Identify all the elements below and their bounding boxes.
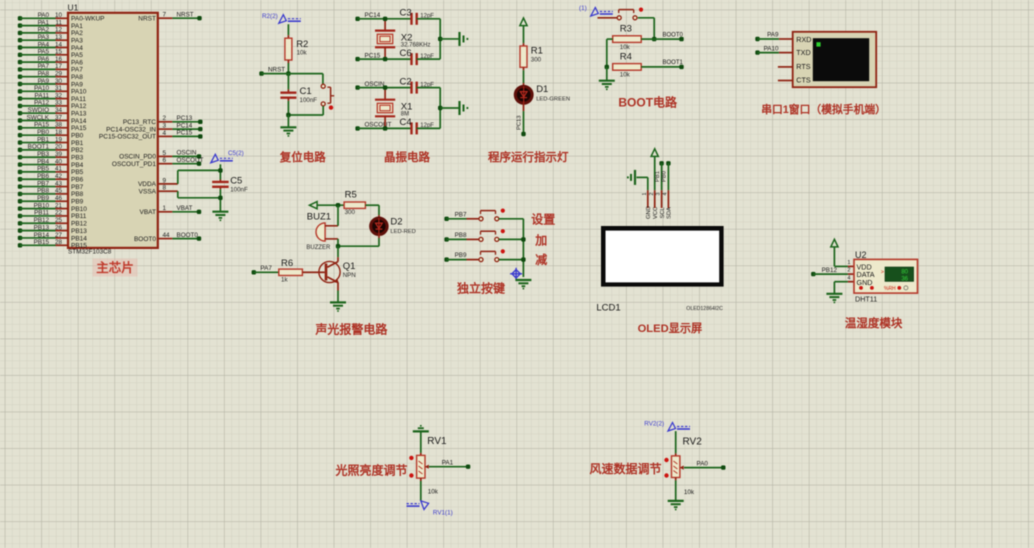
svg-text:PB13: PB13	[34, 224, 50, 231]
svg-text:PB5: PB5	[37, 166, 49, 173]
ground below C5	[212, 211, 228, 213]
resistor R4 10k	[613, 64, 642, 71]
svg-text:PA2: PA2	[71, 30, 83, 37]
svg-text:43: 43	[55, 180, 63, 187]
wire + pin PA1 (pin 11) left side U1	[18, 23, 22, 27]
wire OSCOUT row	[355, 126, 359, 130]
svg-text:D1: D1	[536, 84, 548, 95]
wire + pin PA12 (pin 33) left side U1	[18, 104, 22, 108]
svg-text:PC13: PC13	[177, 115, 193, 122]
pin TXD stub	[779, 52, 793, 54]
DHT11 indicator dots	[859, 286, 863, 290]
svg-text:PB10: PB10	[71, 206, 87, 213]
svg-text:OSCOUT: OSCOUT	[177, 157, 204, 164]
wire + pin PB12 (pin 25) left side U1	[18, 221, 22, 225]
svg-text:PB1: PB1	[655, 171, 661, 182]
svg-text:36: 36	[901, 276, 908, 282]
ground buttons	[515, 279, 531, 281]
svg-text:PA6: PA6	[38, 56, 50, 63]
svg-text:GND: GND	[646, 206, 652, 219]
pin SDA stub	[667, 190, 669, 208]
svg-text:PB9: PB9	[455, 252, 467, 259]
svg-text:PC15: PC15	[177, 130, 193, 137]
svg-text:RTS: RTS	[796, 62, 810, 71]
svg-text:PB14: PB14	[71, 235, 87, 242]
pin VDD stub	[848, 265, 854, 267]
svg-text:VSSA: VSSA	[139, 189, 157, 196]
svg-text:R2: R2	[296, 39, 308, 50]
svg-text:4: 4	[663, 193, 669, 196]
svg-text:减: 减	[535, 252, 547, 267]
capacitor C6 12pF	[410, 53, 412, 65]
svg-text:NRST: NRST	[138, 16, 156, 23]
wire + pin PB5 (pin 41) left side U1	[18, 170, 22, 174]
wire C5 vertical rail	[219, 164, 221, 179]
svg-text:39: 39	[55, 151, 63, 158]
svg-text:40: 40	[55, 158, 63, 165]
wire RV2 bottom	[675, 478, 677, 481]
svg-text:(1): (1)	[579, 5, 587, 12]
svg-text:27: 27	[55, 232, 63, 239]
svg-text:18: 18	[55, 129, 63, 136]
wire + pin PB11 (pin 22) left side U1	[18, 214, 22, 218]
wire R5 to D2	[365, 204, 379, 206]
svg-text:C5: C5	[230, 176, 242, 187]
svg-text:PA2: PA2	[38, 27, 50, 34]
resistor R2 10k	[285, 38, 292, 60]
svg-text:16: 16	[55, 56, 63, 63]
pin RTS stub	[778, 66, 793, 68]
wire PA10 to TXD	[755, 50, 759, 54]
svg-text:BUZ1: BUZ1	[307, 212, 331, 223]
svg-text:PB0: PB0	[662, 171, 668, 182]
svg-text:PB0: PB0	[37, 129, 49, 136]
diode D1 LED-GREEN	[515, 86, 532, 103]
node junction PC14 crystal	[383, 17, 387, 21]
svg-text:OSCIN_PD0: OSCIN_PD0	[119, 154, 156, 161]
svg-text:PB11: PB11	[71, 213, 87, 220]
svg-text:PB7: PB7	[37, 180, 49, 187]
power flag R2(2)	[279, 15, 287, 24]
ground sideways right	[458, 101, 460, 115]
svg-text:PB15: PB15	[34, 239, 50, 246]
svg-text:TXD: TXD	[796, 48, 810, 57]
wire button to BOOT0 rail	[638, 17, 654, 19]
svg-text:100nF: 100nF	[230, 187, 248, 194]
pin VCC stub	[654, 190, 656, 208]
svg-text:Q1: Q1	[343, 261, 356, 272]
wire + pin PA11 (pin 32) left side U1	[18, 96, 22, 100]
svg-text:33: 33	[55, 100, 63, 107]
wire + pin PB14 (pin 27) left side U1	[18, 236, 22, 240]
svg-text:PB7: PB7	[455, 211, 467, 218]
wire + pin PB1 (pin 19) left side U1	[18, 140, 22, 144]
svg-text:10k: 10k	[684, 489, 695, 496]
svg-text:PA15: PA15	[34, 122, 49, 129]
pin DATA stub	[848, 273, 854, 275]
svg-text:PC15-OSC32_OUT: PC15-OSC32_OUT	[99, 134, 156, 141]
svg-text:25: 25	[55, 217, 63, 224]
wire + pin PB3 (pin 39) left side U1	[18, 155, 22, 159]
svg-text:PA10: PA10	[34, 85, 49, 92]
svg-text:PB0: PB0	[71, 133, 84, 140]
node junction rail mid	[438, 106, 442, 110]
svg-text:BOOT0: BOOT0	[177, 232, 199, 239]
svg-text:VDDA: VDDA	[138, 181, 157, 188]
wire button PB7 to rail	[499, 218, 524, 220]
wire OSCIN row	[355, 85, 359, 89]
push button PB8	[479, 237, 483, 241]
wire + pin PB9 (pin 46) left side U1	[18, 199, 22, 203]
wire GND to ground	[834, 281, 848, 283]
svg-text:37: 37	[55, 114, 63, 121]
wire + pin PB8 (pin 45) left side U1	[18, 192, 22, 196]
node junction OSCOUT crystal	[383, 126, 387, 130]
ground alarm	[330, 301, 346, 303]
node junction rail PB8	[521, 237, 525, 241]
svg-text:PA13: PA13	[71, 111, 87, 118]
svg-text:PA9: PA9	[71, 81, 83, 88]
svg-text:45: 45	[55, 188, 63, 195]
svg-text:10: 10	[55, 12, 63, 19]
svg-text:PA9: PA9	[38, 78, 50, 85]
svg-text:32.768KHz: 32.768KHz	[401, 43, 431, 49]
svg-text:LED-RED: LED-RED	[390, 229, 415, 235]
svg-text:BUZZER: BUZZER	[306, 245, 331, 251]
svg-text:1k: 1k	[281, 277, 288, 284]
svg-text:VBAT: VBAT	[140, 209, 157, 216]
wire R4 right to BOOT1	[641, 66, 681, 68]
svg-text:独立按键: 独立按键	[456, 281, 505, 296]
svg-text:19: 19	[55, 136, 63, 143]
power flag RV2(2)	[668, 423, 676, 432]
svg-text:17: 17	[55, 63, 63, 70]
svg-text:PC13: PC13	[516, 115, 522, 130]
label 主芯片	[93, 259, 138, 277]
wire PC14 row	[355, 17, 359, 21]
svg-text:3: 3	[656, 193, 662, 196]
wire rail to side ground	[440, 38, 459, 40]
svg-text:加: 加	[534, 233, 547, 248]
node junction rail mid	[438, 37, 442, 41]
svg-text:R4: R4	[620, 51, 632, 62]
svg-text:>: >	[881, 270, 884, 276]
svg-text:PB4: PB4	[71, 162, 84, 169]
svg-text:PB15: PB15	[71, 243, 87, 250]
wire right rail	[439, 19, 441, 59]
svg-text:4: 4	[847, 275, 850, 281]
wire + pin SWCLK (pin 37) left side U1	[18, 118, 22, 122]
node junction buzzer top	[336, 203, 340, 207]
svg-text:PB12: PB12	[34, 217, 50, 224]
node PC13 net end	[521, 132, 525, 136]
wire RV1 top	[420, 431, 422, 453]
svg-text:PC14-OSC32_IN: PC14-OSC32_IN	[106, 126, 156, 133]
pin GND stub DHT11	[848, 281, 854, 283]
wire PA7 to R6	[252, 270, 256, 274]
capacitor C3 12pF	[410, 13, 412, 25]
svg-text:主芯片: 主芯片	[96, 260, 134, 275]
svg-text:PA15: PA15	[71, 125, 87, 132]
svg-text:C3: C3	[400, 8, 412, 19]
OLED LCD1 screen	[601, 226, 724, 287]
capacitor C2 12pF	[410, 82, 412, 94]
svg-text:SCL: SCL	[660, 206, 666, 218]
svg-text:80: 80	[901, 270, 908, 276]
svg-text:PA4: PA4	[71, 45, 83, 52]
ground reset circuit	[287, 115, 289, 127]
wiper RV2 to PA0	[680, 466, 684, 470]
svg-text:VBAT: VBAT	[177, 205, 193, 212]
op-amp U1 body (STM32F103C8 MCU)	[68, 13, 158, 248]
ground DHT11	[826, 293, 842, 295]
svg-text:NRST: NRST	[268, 67, 285, 74]
wire C2 to rail	[417, 87, 441, 89]
origin marker (blue)	[510, 268, 522, 280]
svg-text:温湿度模块: 温湿度模块	[845, 316, 903, 330]
wire R2 top	[287, 24, 289, 35]
svg-text:38: 38	[55, 122, 63, 129]
wire + pin PA5 (pin 15) left side U1	[18, 53, 22, 57]
svg-text:C6: C6	[400, 48, 412, 59]
svg-text:RV2(2): RV2(2)	[644, 420, 664, 427]
wire RV2 top	[675, 431, 677, 453]
wire power arrow to R5	[317, 204, 344, 206]
svg-text:晶振电路: 晶振电路	[384, 150, 430, 164]
wire + pin BOOT1 (pin 20) left side U1	[18, 148, 22, 152]
svg-text:PB2: PB2	[71, 147, 84, 154]
svg-text:串口1窗口（模拟手机端）: 串口1窗口（模拟手机端）	[761, 102, 886, 116]
svg-text:PA4: PA4	[38, 41, 50, 48]
wire button bottom to rail	[322, 106, 324, 115]
virtual terminal box (serial window)	[793, 32, 877, 87]
node junction PC15 crystal	[383, 57, 387, 61]
wire R3 right to BOOT0	[641, 38, 681, 40]
power flag (1) BOOT	[591, 8, 599, 17]
svg-text:22: 22	[55, 210, 63, 217]
node junction VDDA rail	[218, 168, 222, 172]
wire + pin PA15 (pin 38) left side U1	[18, 126, 22, 130]
svg-text:OSCIN: OSCIN	[177, 150, 197, 157]
svg-text:R5: R5	[345, 190, 357, 201]
svg-text:PA14: PA14	[71, 118, 87, 125]
svg-text:设置: 设置	[531, 211, 555, 226]
svg-text:%RH: %RH	[884, 286, 896, 292]
svg-text:PA1: PA1	[38, 19, 50, 26]
wire right rail	[439, 88, 441, 129]
svg-text:C2: C2	[400, 76, 412, 87]
svg-text:12: 12	[55, 27, 63, 34]
resistor R3 10k	[613, 36, 642, 43]
svg-text:复位电路: 复位电路	[279, 150, 326, 164]
power arrow alarm (left)	[310, 202, 318, 209]
svg-text:SDA: SDA	[667, 207, 673, 219]
svg-text:CTS: CTS	[796, 76, 811, 85]
svg-text:8M: 8M	[401, 112, 409, 118]
wire power to VDD	[833, 247, 835, 267]
wire C6 to rail	[417, 58, 441, 60]
svg-text:NRST: NRST	[177, 11, 194, 18]
svg-text:C5(2): C5(2)	[228, 150, 244, 157]
svg-text:PB8: PB8	[455, 232, 467, 239]
pin GND stub	[647, 190, 649, 208]
wire PB12 to DATA	[811, 272, 815, 276]
svg-text:BOOT电路: BOOT电路	[618, 95, 678, 110]
svg-text:PC15: PC15	[365, 52, 381, 59]
svg-text:R2(2): R2(2)	[262, 13, 278, 20]
svg-text:RXD: RXD	[796, 35, 811, 44]
svg-text:PB1: PB1	[37, 136, 49, 143]
svg-text:R1: R1	[531, 46, 543, 57]
potentiometer RV1 10k body	[417, 455, 425, 478]
wire + pin PA0 (pin 10) left side U1	[18, 16, 22, 20]
wire rail to side ground	[440, 107, 459, 109]
diode D2 LED-RED	[371, 218, 387, 234]
push button PB9	[479, 258, 483, 262]
wire buzzer bottom to junction	[337, 239, 339, 246]
pin SCL stub	[661, 190, 663, 208]
svg-text:42: 42	[55, 173, 63, 180]
svg-text:PB6: PB6	[37, 173, 49, 180]
svg-text:DHT11: DHT11	[855, 294, 877, 303]
svg-text:2: 2	[649, 193, 655, 196]
wire D2 bottom to junction	[378, 234, 380, 238]
svg-text:PB10: PB10	[34, 202, 50, 209]
svg-text:STM32F103C8: STM32F103C8	[68, 249, 112, 256]
wire + pin PA8 (pin 29) left side U1	[18, 75, 22, 79]
svg-text:15: 15	[55, 49, 63, 56]
pin CTS stub	[778, 80, 793, 82]
wire + pin PA2 (pin 12) left side U1	[18, 31, 22, 35]
wire SDA to PB0	[666, 161, 670, 165]
power flag C5(2)	[211, 154, 219, 163]
ground RV2	[668, 500, 684, 502]
svg-text:PC13_RTC: PC13_RTC	[123, 119, 156, 126]
wire + pin PB7 (pin 43) left side U1	[18, 184, 22, 188]
wire + pin PB13 (pin 26) left side U1	[18, 228, 22, 232]
svg-text:C4: C4	[400, 117, 412, 128]
wire + pin PB6 (pin 42) left side U1	[18, 177, 22, 181]
wire SCL to PB1	[659, 161, 663, 165]
svg-text:C1: C1	[300, 86, 312, 97]
svg-text:PB9: PB9	[37, 195, 49, 202]
crystal X1 8M	[384, 88, 386, 100]
svg-text:13: 13	[55, 34, 63, 41]
wire NRST left stub	[259, 71, 263, 75]
wire + pin PB0 (pin 18) left side U1	[18, 133, 22, 137]
svg-text:300: 300	[345, 209, 356, 216]
capacitor C5 100nF	[212, 181, 229, 183]
svg-text:PA1: PA1	[71, 23, 83, 30]
svg-text:LCD1: LCD1	[596, 303, 620, 314]
node junction BOOT0	[652, 37, 656, 41]
svg-text:U2: U2	[855, 250, 867, 260]
wire PA9 to RXD	[755, 37, 759, 41]
svg-text:20: 20	[55, 144, 63, 151]
svg-text:PA12: PA12	[71, 103, 87, 110]
svg-text:PA0: PA0	[38, 12, 50, 19]
value adjust dots RV1	[409, 456, 413, 460]
svg-text:PA1: PA1	[442, 459, 454, 466]
wire R6 to Q1 base	[302, 271, 317, 273]
transistor Q1 NPN	[319, 261, 340, 282]
svg-text:32: 32	[55, 92, 63, 99]
svg-text:SWCLK: SWCLK	[27, 114, 50, 121]
wire VCC	[654, 156, 656, 190]
svg-text:PA6: PA6	[71, 59, 83, 66]
svg-text:300: 300	[531, 57, 542, 64]
wire + pin PA10 (pin 31) left side U1	[18, 89, 22, 93]
wire button PB8 to rail	[499, 238, 524, 240]
svg-text:21: 21	[55, 202, 63, 209]
wire PB7 to button	[444, 217, 448, 221]
node junction rail PB9	[521, 257, 525, 261]
svg-text:14: 14	[55, 41, 63, 48]
wire + pin PA3 (pin 13) left side U1	[18, 38, 22, 42]
svg-text:PC14: PC14	[365, 12, 381, 19]
wire buttons rail	[522, 219, 524, 277]
svg-text:风速数据调节: 风速数据调节	[589, 461, 661, 476]
wire R3 left to rail	[607, 38, 613, 40]
svg-text:41: 41	[55, 166, 63, 173]
svg-text:PA5: PA5	[71, 52, 83, 59]
wire NRST to button branch	[288, 73, 323, 75]
wire NRST down to C1	[287, 74, 289, 90]
ground BOOT divider	[606, 67, 608, 81]
svg-text:BOOT1: BOOT1	[28, 144, 50, 151]
svg-text:29: 29	[55, 71, 63, 78]
svg-text:100nF: 100nF	[300, 97, 318, 104]
svg-text:PB13: PB13	[71, 228, 87, 235]
wire C1 bottom	[287, 98, 289, 101]
svg-text:OSCOUT_PD1: OSCOUT_PD1	[112, 161, 156, 168]
wire + pin PA4 (pin 14) left side U1	[18, 45, 22, 49]
wire D1 to PC13 net	[523, 103, 525, 111]
svg-text:PB12: PB12	[822, 267, 838, 274]
wire + pin PA6 (pin 16) left side U1	[18, 60, 22, 64]
svg-text:NPN: NPN	[343, 272, 356, 279]
svg-text:PB7: PB7	[71, 184, 84, 191]
power flag RV1(1)	[421, 501, 429, 510]
svg-text:D2: D2	[390, 217, 402, 228]
svg-text:PB4: PB4	[37, 158, 49, 165]
svg-text:1: 1	[642, 193, 648, 196]
svg-text:10k: 10k	[620, 72, 631, 79]
svg-text:BOOT1: BOOT1	[663, 60, 684, 66]
svg-text:PB5: PB5	[71, 169, 84, 176]
svg-text:PA7: PA7	[71, 67, 83, 74]
svg-text:OSCIN: OSCIN	[365, 81, 385, 88]
svg-text:BOOT0: BOOT0	[663, 32, 684, 38]
svg-text:PB14: PB14	[34, 232, 50, 239]
svg-text:1: 1	[847, 260, 850, 266]
svg-text:R6: R6	[281, 258, 293, 269]
wire junction down to Q1 collector	[337, 246, 339, 257]
svg-text:PB6: PB6	[71, 177, 84, 184]
svg-text:PB8: PB8	[37, 188, 49, 195]
svg-text:PA12: PA12	[34, 100, 49, 107]
wire flag to button	[598, 17, 618, 19]
svg-text:PA0-WKUP: PA0-WKUP	[71, 16, 104, 23]
svg-text:PC14: PC14	[177, 122, 193, 129]
wire + pin PA7 (pin 17) left side U1	[18, 67, 22, 71]
svg-text:BOOT0: BOOT0	[134, 236, 156, 243]
svg-text:PB3: PB3	[37, 151, 49, 158]
svg-text:LED-GREEN: LED-GREEN	[536, 97, 570, 103]
svg-text:PB12: PB12	[71, 221, 87, 228]
node junction OSCIN crystal	[383, 85, 387, 89]
svg-text:OSCOUT: OSCOUT	[365, 122, 392, 129]
